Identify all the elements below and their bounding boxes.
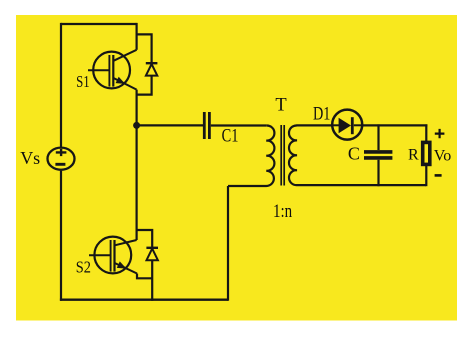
capacitor C1	[204, 112, 209, 139]
transistor S2	[89, 237, 137, 274]
wire mid branch vertical	[136, 90, 138, 240]
svg-text:1:n: 1:n	[273, 202, 292, 222]
wire S1 diode bottom branch	[137, 76, 152, 95]
wire midpoint to C1	[137, 124, 203, 126]
wire S2 diode top branch	[137, 230, 153, 248]
label plus	[435, 129, 445, 138]
wire primary return vertical	[227, 186, 229, 301]
node midpoint junction	[133, 122, 140, 129]
wire S2 diode bottom to rail	[151, 260, 153, 301]
svg-text:Vs: Vs	[20, 148, 40, 168]
wire top rail	[61, 23, 137, 25]
wire bottom rail	[60, 299, 228, 301]
wire left vertical upper	[60, 23, 62, 148]
diode D-S2 (antiparallel on S2)	[146, 248, 158, 260]
svg-text:T: T	[275, 96, 286, 116]
svg-text:D1: D1	[313, 105, 330, 125]
transformer T core	[281, 125, 284, 186]
wire S1 diode top branch	[137, 34, 152, 63]
svg-text:C1: C1	[222, 127, 239, 147]
svg-text:S1: S1	[76, 72, 90, 91]
wire output top rail	[362, 124, 428, 126]
svg-text:S2: S2	[76, 257, 91, 276]
wire S2 emitter bottom branch	[137, 274, 152, 279]
wire load branch lower	[425, 166, 427, 186]
svg-text:C: C	[348, 144, 360, 164]
svg-text:Vo: Vo	[434, 147, 452, 164]
transistor S1	[88, 50, 137, 90]
svg-text:R: R	[408, 146, 419, 163]
wire S1 collector drop	[136, 23, 138, 50]
resistor R	[423, 142, 430, 164]
wire load branch upper	[425, 124, 427, 141]
transformer T primary winding	[228, 125, 274, 186]
diode D-S1 (antiparallel on S1)	[146, 63, 158, 75]
wire left vertical lower	[60, 171, 62, 301]
diode D1	[332, 110, 362, 140]
label minus	[435, 174, 442, 177]
wire secondary top lead	[297, 124, 334, 126]
transformer T secondary winding	[289, 125, 426, 185]
wire C1 to primary	[211, 124, 266, 126]
capacitor C	[364, 124, 392, 186]
source Vs	[48, 148, 75, 170]
